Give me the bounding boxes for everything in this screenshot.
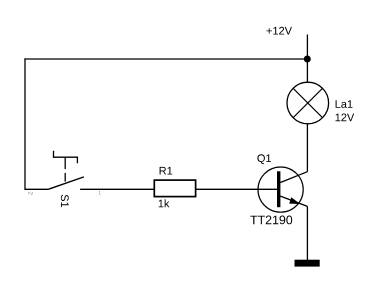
resistor label R1 [160, 167, 173, 175]
wire resistor to transistor base [196, 188, 277, 190]
switch S1 lever [49, 177, 84, 189]
wire left rail to switch left contact [24, 188, 48, 190]
switch pin number 2 [29, 192, 33, 195]
wire from +12V down to junction [306, 35, 308, 60]
resistor value 1k [159, 199, 170, 207]
wire switch right contact to resistor [80, 188, 154, 190]
switch label S1 (rotated) [61, 195, 69, 207]
switch S1 pushbutton actuator [54, 151, 78, 182]
transistor part number TT2190 [250, 216, 292, 225]
switch pin number 1 [99, 191, 101, 194]
ground [295, 260, 320, 267]
lamp La1 [287, 82, 329, 124]
wire top horizontal rail [24, 58, 307, 60]
node +12V label [267, 27, 292, 35]
transistor Q1 [258, 167, 307, 212]
wire lamp bottom to collector corner [306, 124, 308, 172]
wire junction down to lamp top [306, 59, 308, 83]
wire left rail vertical [24, 58, 26, 189]
lamp label La1 [336, 100, 353, 108]
transistor label Q1 [257, 154, 271, 164]
lamp value 12V [336, 114, 355, 122]
wire emitter to ground [306, 206, 308, 260]
node junction dot [304, 56, 311, 63]
resistor R1 [154, 180, 195, 197]
